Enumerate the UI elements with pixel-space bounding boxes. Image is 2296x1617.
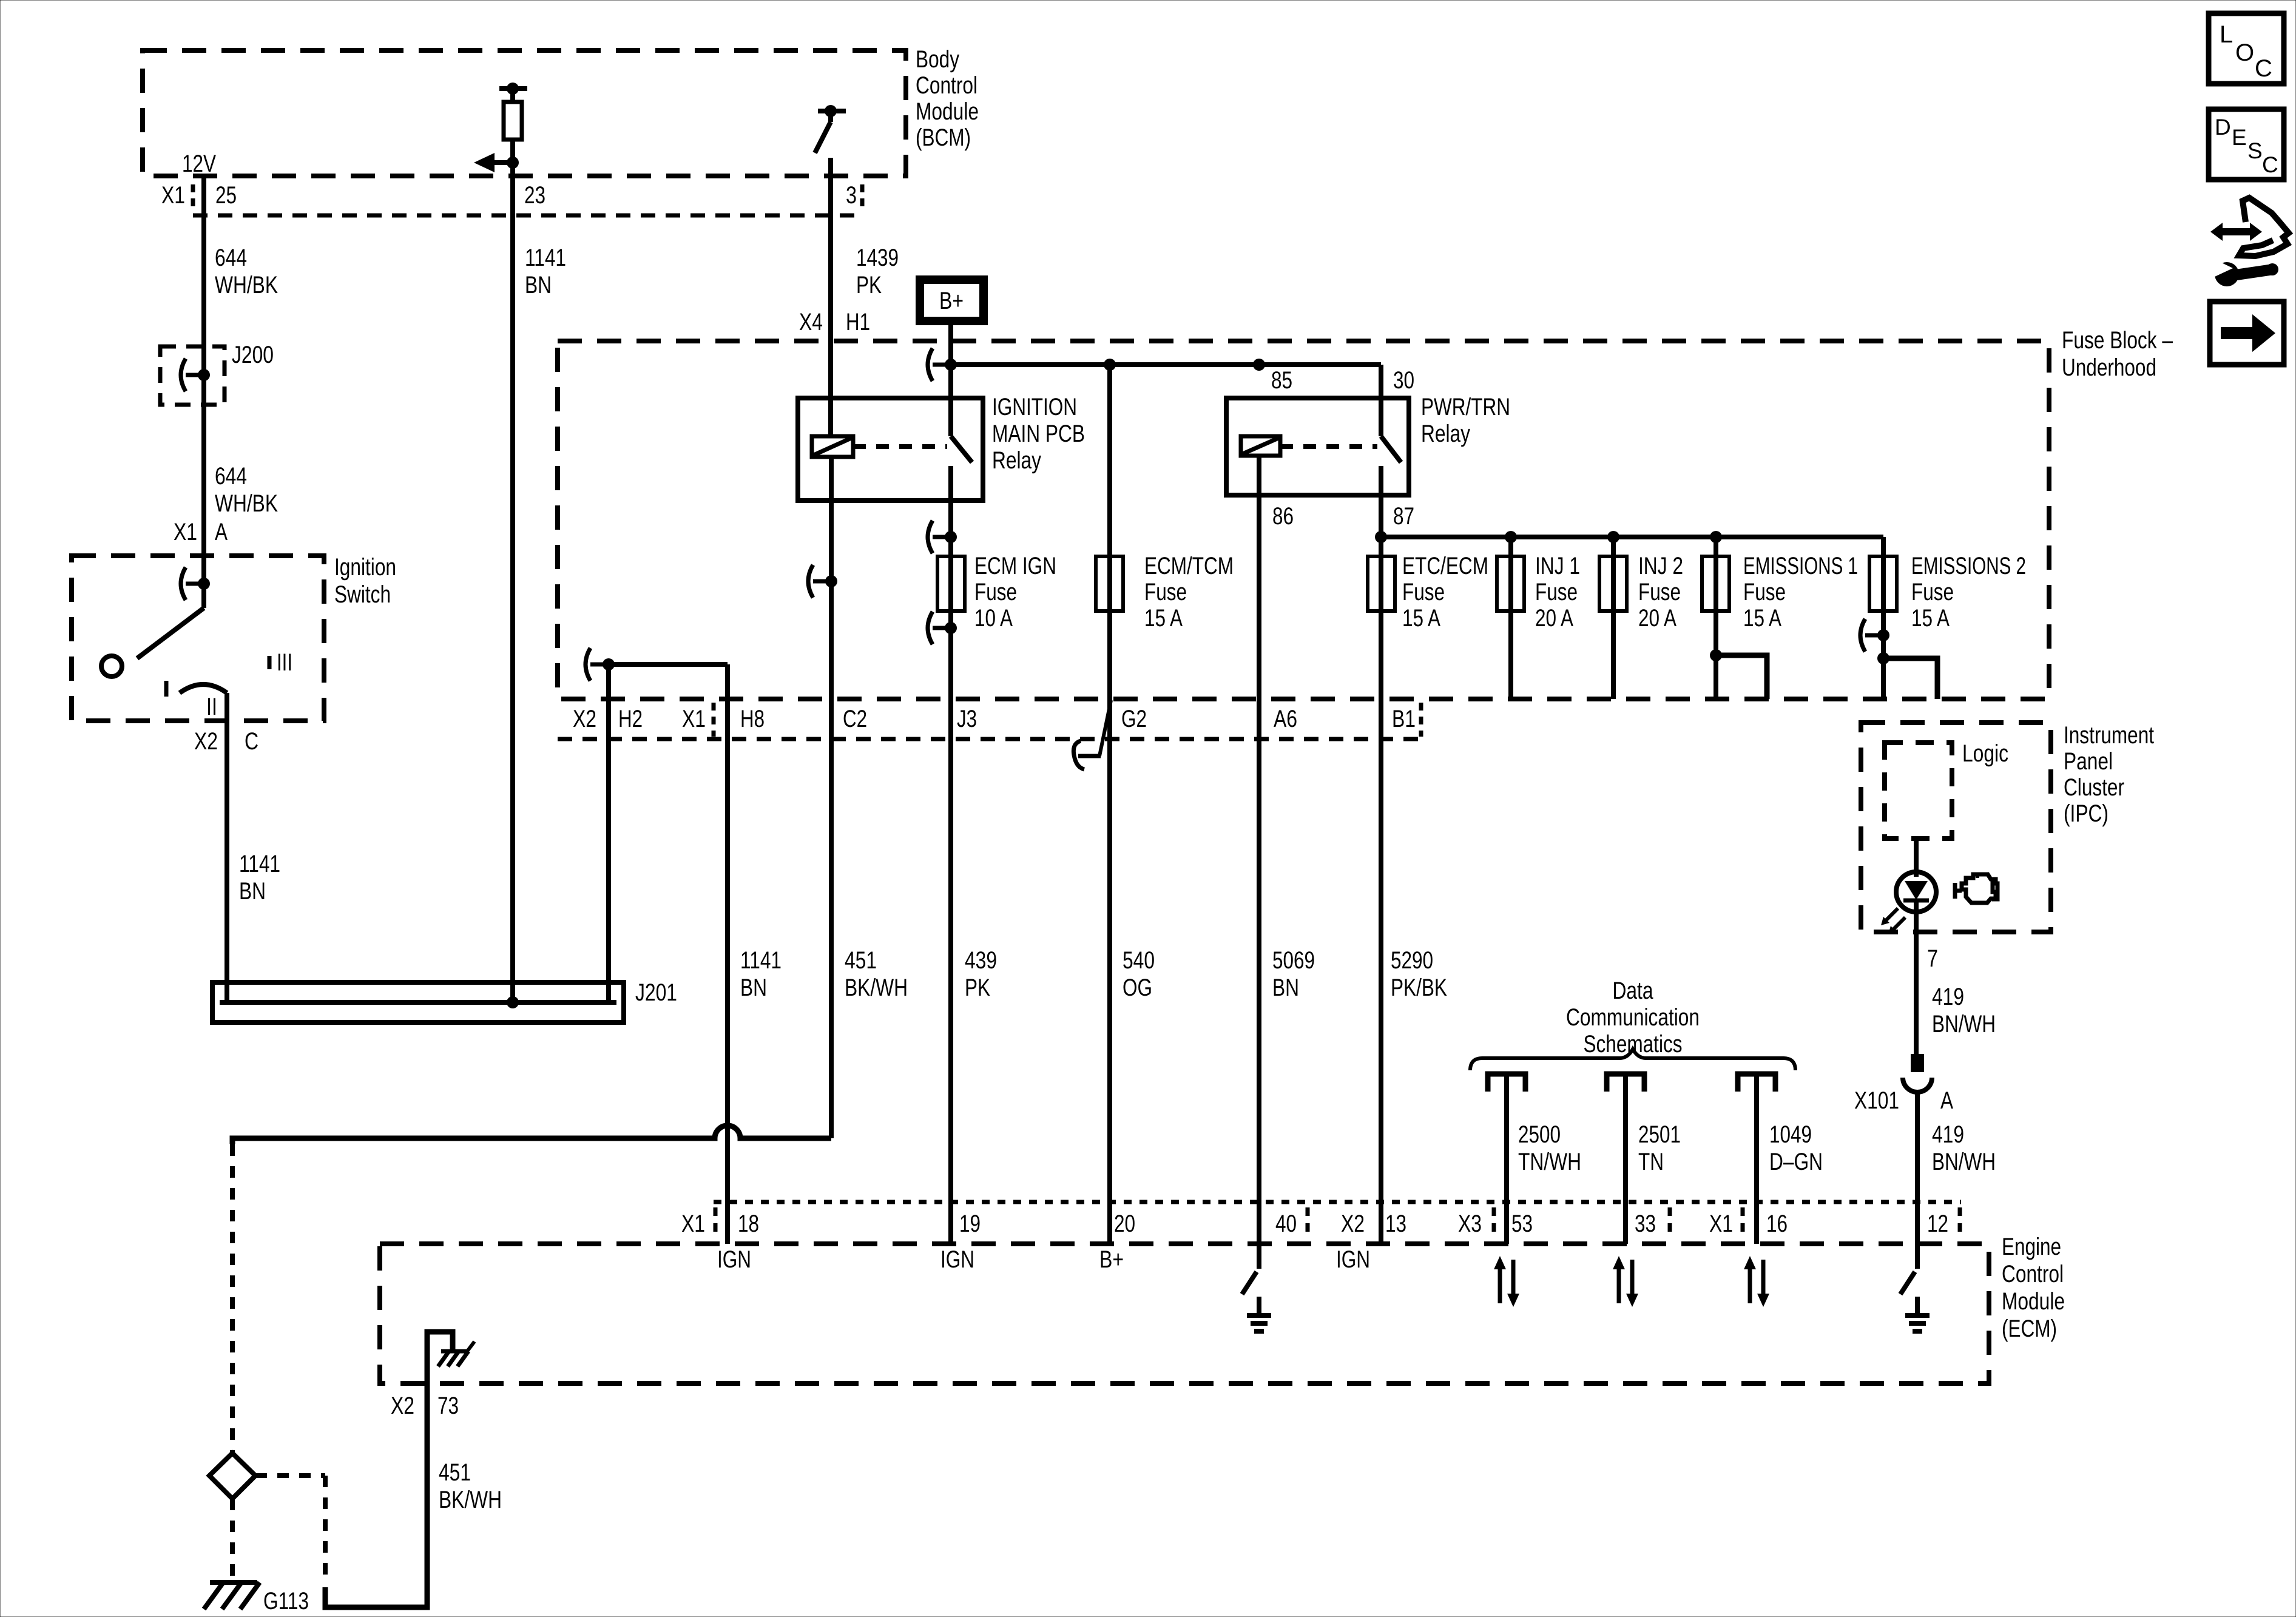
svg-text:ECM/TCM: ECM/TCM bbox=[1144, 553, 1234, 579]
clip below EMISSIONS2 fuse bbox=[1860, 619, 1865, 652]
svg-text:Control: Control bbox=[2002, 1261, 2064, 1288]
connector X101 female半 socket bbox=[1903, 1078, 1932, 1092]
svg-text:13: 13 bbox=[1385, 1210, 1406, 1237]
svg-text:Switch: Switch bbox=[334, 581, 391, 608]
wire relay coil down to C2 bbox=[829, 457, 834, 1138]
bracket right of B1 bbox=[1419, 703, 1423, 737]
relay coil link dashed bbox=[853, 444, 947, 449]
check engine icon bbox=[1962, 874, 1996, 903]
svg-text:439: 439 bbox=[965, 947, 997, 974]
node EMISSIONS1 output split bbox=[1710, 649, 1722, 661]
svg-text:2501: 2501 bbox=[1638, 1121, 1681, 1148]
svg-text:540: 540 bbox=[1123, 947, 1155, 974]
node INJ1 feed bbox=[1505, 531, 1517, 543]
ECM internal ground at pin 12 bbox=[1915, 1297, 1920, 1315]
svg-text:40: 40 bbox=[1275, 1210, 1297, 1237]
svg-text:Communication: Communication bbox=[1566, 1004, 1700, 1031]
ignition switch contact arc bbox=[180, 684, 227, 693]
svg-text:A6: A6 bbox=[1274, 706, 1297, 732]
wire 1141 BN from BCM pin 23 to J201 bbox=[510, 176, 515, 1002]
svg-text:H1: H1 bbox=[846, 309, 870, 336]
svg-text:Fuse Block –: Fuse Block – bbox=[2062, 327, 2173, 354]
svg-text:Body: Body bbox=[916, 46, 959, 73]
ignition switch input clip bbox=[181, 567, 186, 600]
data link connector 2 bbox=[1607, 1074, 1644, 1092]
wire 1141 BN H8 to ECM pin 18 bbox=[725, 664, 730, 1244]
svg-text:J201: J201 bbox=[635, 979, 677, 1006]
svg-text:BN: BN bbox=[525, 272, 552, 299]
svg-text:B+: B+ bbox=[1099, 1246, 1124, 1273]
svg-text:IGN: IGN bbox=[940, 1246, 974, 1273]
ground G113 chassis symbol bbox=[210, 1580, 257, 1585]
wire 2500 TN/WH to ECM pin 53 bbox=[1504, 1074, 1509, 1244]
svg-text:15 A: 15 A bbox=[1144, 605, 1183, 632]
icon next-page arrow box bbox=[2210, 302, 2284, 365]
svg-text:87: 87 bbox=[1393, 503, 1414, 530]
svg-text:10 A: 10 A bbox=[974, 605, 1013, 632]
svg-text:33: 33 bbox=[1635, 1210, 1656, 1237]
svg-text:PWR/TRN: PWR/TRN bbox=[1421, 394, 1510, 420]
svg-text:25: 25 bbox=[215, 182, 237, 209]
svg-text:Control: Control bbox=[916, 72, 977, 99]
icon DESC box bbox=[2209, 109, 2284, 180]
wire INJ1 fuse to fuse block edge bbox=[1508, 537, 1513, 699]
svg-text:644: 644 bbox=[215, 463, 247, 490]
fuse INJ2 20A bbox=[1599, 556, 1627, 611]
svg-text:G113: G113 bbox=[263, 1588, 309, 1615]
svg-text:1141: 1141 bbox=[239, 851, 280, 877]
module BCM dashed box bbox=[143, 50, 906, 176]
svg-text:A: A bbox=[1940, 1087, 1953, 1114]
svg-text:(ECM): (ECM) bbox=[2002, 1315, 2057, 1342]
splice J201 box bbox=[212, 982, 624, 1022]
node 87 bus start bbox=[1375, 531, 1387, 543]
svg-text:20 A: 20 A bbox=[1535, 605, 1573, 632]
IPC Logic dashed box bbox=[1885, 743, 1952, 839]
svg-text:16: 16 bbox=[1766, 1210, 1788, 1237]
svg-text:5290: 5290 bbox=[1391, 947, 1433, 974]
svg-text:TN/WH: TN/WH bbox=[1518, 1149, 1581, 1175]
ECM connector row dotted line bbox=[714, 1200, 1961, 1204]
svg-text:73: 73 bbox=[437, 1393, 459, 1419]
relay PWR/TRN box bbox=[1226, 398, 1409, 495]
ECM internal ground at pin 73 bbox=[427, 1332, 453, 1383]
wire Logic to MIL lamp bbox=[1914, 839, 1919, 877]
node bus to PWR/TRN relay coil bbox=[1253, 359, 1265, 371]
relay IGNITION MAIN PCB switch blade bbox=[951, 436, 972, 462]
wire 1141 BN from J201 up to fuse block X2 H2 bbox=[606, 664, 611, 1002]
svg-text:IGN: IGN bbox=[1336, 1246, 1370, 1273]
svg-text:C2: C2 bbox=[843, 706, 867, 732]
wire bus corner down to relay pin 30 bbox=[1379, 365, 1383, 436]
svg-text:OG: OG bbox=[1123, 974, 1152, 1001]
module Engine Control Module dashed box bbox=[380, 1244, 1989, 1383]
svg-text:85: 85 bbox=[1271, 367, 1292, 394]
node EMISSIONS2 output split bbox=[1877, 652, 1889, 664]
svg-text:TN: TN bbox=[1638, 1149, 1664, 1175]
svg-text:20: 20 bbox=[1114, 1210, 1135, 1237]
svg-text:30: 30 bbox=[1393, 367, 1414, 394]
svg-text:BN/WH: BN/WH bbox=[1932, 1011, 1996, 1038]
ignition switch movable blade bbox=[201, 584, 206, 608]
clip on relay coil output bbox=[808, 565, 813, 598]
BCM internal switch on pin 3 bbox=[818, 109, 846, 113]
wire ECM/TCM fuse feed bbox=[1107, 365, 1112, 1244]
svg-text:53: 53 bbox=[1511, 1210, 1533, 1237]
svg-text:IGNITION: IGNITION bbox=[992, 394, 1077, 420]
svg-text:Fuse: Fuse bbox=[1402, 579, 1445, 606]
brace over data links bbox=[1470, 1049, 1795, 1070]
svg-text:1141: 1141 bbox=[525, 245, 566, 271]
svg-text:C: C bbox=[2262, 152, 2278, 177]
node EMISSIONS1 feed bbox=[1710, 531, 1722, 543]
svg-text:Module: Module bbox=[916, 98, 979, 125]
svg-text:Instrument: Instrument bbox=[2064, 722, 2154, 749]
bracket fuse block X1 bbox=[712, 703, 716, 737]
splice J201 junction bbox=[507, 996, 519, 1008]
relay switch contact to fuse bbox=[948, 466, 953, 1244]
svg-text:O: O bbox=[2235, 39, 2254, 66]
MIL light emission arrows bbox=[1885, 908, 1898, 922]
svg-text:X2: X2 bbox=[194, 728, 218, 755]
svg-text:Relay: Relay bbox=[1421, 420, 1470, 447]
data arrows pin 16 bbox=[1748, 1268, 1752, 1303]
svg-text:419: 419 bbox=[1932, 1121, 1964, 1148]
battery feed B+ box bbox=[920, 280, 984, 321]
relay PWR/TRN switch blade bbox=[1381, 436, 1401, 462]
B+ terminal clip bbox=[928, 348, 933, 381]
node bus to ECM/TCM fuse bbox=[1104, 359, 1116, 371]
wire B+ distribution bus bbox=[951, 362, 1381, 367]
ECM internal switch at pin 40 bbox=[1242, 1272, 1257, 1294]
wire 1439 PK from BCM pin 3 to relay coil bbox=[828, 158, 833, 436]
svg-text:BK/WH: BK/WH bbox=[439, 1487, 502, 1513]
icon service tools (arrow, part outline, wrench) bbox=[2210, 223, 2262, 241]
module Fuse Block - Underhood dashed box bbox=[558, 341, 2049, 699]
bracket after X1 right bbox=[1741, 1207, 1745, 1237]
svg-text:BN/WH: BN/WH bbox=[1932, 1149, 1996, 1175]
svg-text:J200: J200 bbox=[232, 342, 274, 368]
wire 1049 D-GN to ECM pin 16 bbox=[1754, 1074, 1759, 1244]
relay PWR/TRN coil bbox=[1241, 436, 1280, 456]
svg-text:19: 19 bbox=[959, 1210, 981, 1237]
svg-text:X1: X1 bbox=[682, 706, 706, 732]
svg-text:G2: G2 bbox=[1121, 706, 1147, 732]
svg-text:WH/BK: WH/BK bbox=[215, 490, 278, 517]
wire EMISSIONS2 second output elbow bbox=[1883, 658, 1937, 699]
G2 terminal pigtail clip bbox=[1099, 700, 1111, 756]
svg-text:BN: BN bbox=[239, 878, 266, 905]
svg-text:J3: J3 bbox=[957, 706, 977, 732]
svg-text:II: II bbox=[206, 694, 217, 720]
svg-text:IGN: IGN bbox=[717, 1246, 751, 1273]
svg-text:1049: 1049 bbox=[1769, 1121, 1812, 1148]
svg-text:X4: X4 bbox=[799, 309, 823, 336]
wire INJ2 fuse to fuse block edge bbox=[1611, 537, 1616, 699]
svg-text:451: 451 bbox=[845, 947, 877, 974]
data arrows pin 53 bbox=[1498, 1268, 1502, 1303]
ignition switch position I mark bbox=[164, 681, 169, 697]
svg-text:B1: B1 bbox=[1392, 706, 1416, 732]
svg-text:Underhood: Underhood bbox=[2062, 354, 2156, 381]
svg-text:12: 12 bbox=[1927, 1210, 1948, 1237]
svg-text:WH/BK: WH/BK bbox=[215, 272, 278, 299]
wire EMISSIONS1 fuse to fuse block edge bbox=[1714, 537, 1718, 699]
svg-text:D: D bbox=[2215, 115, 2231, 140]
svg-text:H8: H8 bbox=[740, 706, 765, 732]
BCM internal load (resistor) on pin 23 branch bbox=[499, 86, 527, 91]
svg-text:X2: X2 bbox=[1341, 1210, 1365, 1237]
svg-text:Fuse: Fuse bbox=[1911, 579, 1954, 606]
node INJ2 feed bbox=[1607, 531, 1619, 543]
splice J201 internal bus bbox=[220, 1000, 616, 1005]
svg-text:ETC/ECM: ETC/ECM bbox=[1402, 553, 1488, 579]
svg-text:451: 451 bbox=[439, 1459, 471, 1486]
fuse ECM/TCM 15A bbox=[1096, 556, 1123, 611]
svg-text:15 A: 15 A bbox=[1402, 605, 1440, 632]
fuse EMISSIONS1 15A bbox=[1702, 556, 1729, 611]
svg-text:X2: X2 bbox=[573, 706, 596, 732]
svg-text:E: E bbox=[2232, 125, 2247, 150]
svg-text:X3: X3 bbox=[1458, 1210, 1482, 1237]
svg-text:L: L bbox=[2220, 21, 2233, 48]
bracket right of pin 3 bbox=[860, 184, 865, 208]
BCM internal output arrow (to module circuits) bbox=[507, 157, 519, 169]
svg-text:5069: 5069 bbox=[1272, 947, 1315, 974]
svg-text:644: 644 bbox=[215, 245, 247, 271]
svg-text:15 A: 15 A bbox=[1911, 605, 1950, 632]
wire relay PWR/TRN switch to 87 bus bbox=[1379, 466, 1383, 1244]
wire dashed to ground diamond bbox=[230, 1144, 235, 1453]
svg-text:Module: Module bbox=[2002, 1288, 2065, 1315]
bracket after pin 40 bbox=[1306, 1207, 1310, 1237]
wire 87 distribution bus bbox=[1381, 535, 1883, 539]
svg-text:Fuse: Fuse bbox=[1535, 579, 1578, 606]
svg-text:(IPC): (IPC) bbox=[2064, 800, 2109, 827]
bracket after pin 12 bbox=[1958, 1207, 1962, 1237]
svg-text:86: 86 bbox=[1272, 503, 1294, 530]
bracket ECM X1 left bbox=[714, 1207, 718, 1237]
svg-text:INJ 1: INJ 1 bbox=[1535, 553, 1580, 579]
fuse ECM IGN 10A bbox=[937, 556, 965, 611]
wire 451 BK/WH to ECM pin 73 bbox=[325, 1383, 427, 1607]
svg-text:PK: PK bbox=[856, 272, 882, 299]
splice J200 dashed box bbox=[160, 346, 225, 405]
svg-text:Panel: Panel bbox=[2064, 748, 2113, 775]
svg-text:X1: X1 bbox=[161, 182, 185, 209]
svg-text:B+: B+ bbox=[939, 288, 964, 314]
svg-text:Cluster: Cluster bbox=[2064, 774, 2124, 801]
fuse ETC/ECM 15A bbox=[1368, 556, 1395, 611]
svg-text:III: III bbox=[277, 649, 292, 676]
data link connector 3 bbox=[1738, 1074, 1775, 1092]
svg-text:INJ 2: INJ 2 bbox=[1638, 553, 1683, 579]
ECM internal switch at pin 12 bbox=[1915, 1244, 1920, 1269]
clip above ECM IGN fuse bbox=[928, 521, 933, 553]
svg-text:BN: BN bbox=[1272, 974, 1299, 1001]
svg-text:18: 18 bbox=[738, 1210, 759, 1237]
module Ignition Switch dashed box bbox=[72, 556, 324, 721]
svg-text:Fuse: Fuse bbox=[1743, 579, 1786, 606]
svg-text:1439: 1439 bbox=[856, 245, 899, 271]
svg-text:15 A: 15 A bbox=[1743, 605, 1781, 632]
svg-text:(BCM): (BCM) bbox=[916, 124, 971, 151]
svg-text:Ignition: Ignition bbox=[334, 554, 396, 581]
ECM internal ground at pin 40 bbox=[1257, 1297, 1261, 1315]
wire MIL to IPC pin 7 bbox=[1914, 912, 1919, 1054]
svg-text:H2: H2 bbox=[618, 706, 643, 732]
svg-text:ECM IGN: ECM IGN bbox=[974, 553, 1056, 579]
fuse INJ1 20A bbox=[1497, 556, 1524, 611]
icon LOC box bbox=[2209, 13, 2284, 84]
svg-text:X1: X1 bbox=[681, 1210, 705, 1237]
svg-text:X101: X101 bbox=[1854, 1087, 1899, 1114]
wire dashed diamond to G113 bbox=[230, 1499, 235, 1581]
connector X101 male pin bbox=[1911, 1054, 1924, 1072]
relay IGNITION MAIN PCB box bbox=[798, 398, 983, 501]
bracket X1 left bbox=[191, 184, 195, 208]
wire EMISSIONS2 feed corner bbox=[1881, 537, 1886, 699]
BCM connector X1 row (dotted line) bbox=[193, 214, 862, 218]
svg-text:Fuse: Fuse bbox=[974, 579, 1017, 606]
svg-text:X1: X1 bbox=[174, 519, 197, 545]
svg-text:Fuse: Fuse bbox=[1638, 579, 1681, 606]
clip below ECM IGN fuse bbox=[928, 612, 933, 644]
wire EMISSIONS1 second output elbow bbox=[1716, 655, 1767, 699]
wire B+ into fuse block bbox=[948, 321, 953, 436]
wire 1141 BN from ignition switch C to J201 bbox=[225, 693, 229, 1002]
svg-text:D–GN: D–GN bbox=[1769, 1149, 1823, 1175]
ignition switch key contact circle bbox=[101, 656, 122, 677]
data link connector 1 bbox=[1488, 1074, 1525, 1092]
svg-text:A: A bbox=[215, 519, 228, 545]
svg-text:MAIN PCB: MAIN PCB bbox=[992, 420, 1085, 447]
wire 451 BK/WH from C2 to ground path (with crossover hop) bbox=[232, 1126, 831, 1144]
wire dashed diamond right branch bbox=[255, 1473, 325, 1478]
module Instrument Panel Cluster dashed box bbox=[1861, 723, 2051, 932]
svg-text:12V: 12V bbox=[182, 150, 216, 177]
svg-text:C: C bbox=[245, 728, 258, 755]
svg-text:X2: X2 bbox=[391, 1393, 414, 1419]
svg-text:7: 7 bbox=[1927, 945, 1938, 972]
wire 644 WH/BK from BCM pin 25 bbox=[201, 176, 206, 584]
fuse EMISSIONS2 15A bbox=[1869, 556, 1897, 611]
ignition switch position III mark bbox=[268, 656, 272, 669]
MIL indicator LED bbox=[1896, 872, 1936, 912]
svg-text:C: C bbox=[2255, 55, 2272, 82]
fuse block bottom connector row dashed line bbox=[558, 737, 1426, 741]
svg-text:Data: Data bbox=[1613, 977, 1654, 1004]
svg-text:Relay: Relay bbox=[992, 447, 1041, 474]
svg-text:Schematics: Schematics bbox=[1584, 1031, 1683, 1058]
svg-text:Engine: Engine bbox=[2002, 1234, 2061, 1260]
svg-text:419: 419 bbox=[1932, 984, 1964, 1010]
svg-text:1141: 1141 bbox=[740, 947, 782, 974]
svg-text:BN: BN bbox=[740, 974, 767, 1001]
bracket after pin 33 bbox=[1668, 1207, 1672, 1237]
fuse block internal link H2 to H8 bbox=[586, 648, 590, 681]
svg-text:EMISSIONS 2: EMISSIONS 2 bbox=[1911, 553, 2026, 579]
data arrows pin 33 bbox=[1617, 1268, 1621, 1303]
ground splice diamond bbox=[209, 1453, 255, 1499]
wire 419 BN/WH to ECM pin 12 bbox=[1915, 1092, 1920, 1244]
relay IGNITION MAIN PCB coil bbox=[812, 436, 853, 457]
svg-text:Fuse: Fuse bbox=[1144, 579, 1187, 606]
svg-text:PK/BK: PK/BK bbox=[1391, 974, 1447, 1001]
svg-text:20 A: 20 A bbox=[1638, 605, 1676, 632]
splice J200 clip bbox=[181, 359, 186, 391]
svg-text:BK/WH: BK/WH bbox=[845, 974, 908, 1001]
svg-text:Logic: Logic bbox=[1962, 740, 2008, 767]
bracket after X3 bbox=[1492, 1207, 1496, 1237]
svg-text:3: 3 bbox=[846, 182, 857, 209]
wire 2501 TN to ECM pin 33 bbox=[1623, 1074, 1628, 1244]
svg-text:S: S bbox=[2247, 138, 2263, 163]
svg-text:2500: 2500 bbox=[1518, 1121, 1561, 1148]
svg-text:PK: PK bbox=[965, 974, 990, 1001]
wire relay PWR/TRN coil to A6 and ECM pin 40 bbox=[1257, 456, 1261, 1269]
svg-text:23: 23 bbox=[524, 182, 545, 209]
svg-text:X1: X1 bbox=[1709, 1210, 1733, 1237]
svg-text:EMISSIONS 1: EMISSIONS 1 bbox=[1743, 553, 1858, 579]
relay PWR/TRN coil link dashed bbox=[1280, 444, 1377, 449]
